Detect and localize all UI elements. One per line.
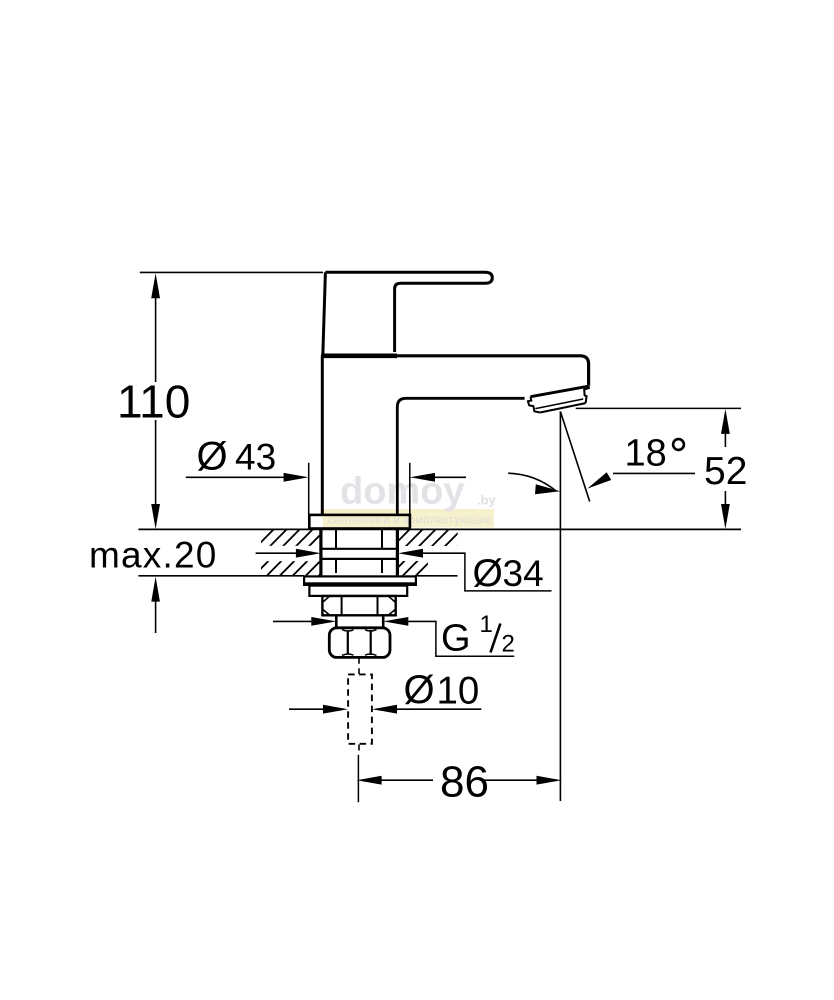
svg-text:43: 43 — [235, 436, 276, 477]
svg-text:Ø: Ø — [473, 552, 503, 595]
svg-text:52: 52 — [704, 450, 747, 493]
svg-text:86: 86 — [440, 757, 489, 806]
svg-text:10: 10 — [437, 670, 480, 713]
svg-text:110: 110 — [117, 376, 190, 428]
svg-text:2: 2 — [502, 631, 515, 658]
svg-text:G: G — [441, 617, 471, 659]
svg-text:max.20: max.20 — [89, 535, 218, 576]
svg-text:1: 1 — [480, 611, 493, 638]
svg-text:Ø: Ø — [404, 668, 435, 712]
svg-text:34: 34 — [503, 553, 544, 594]
svg-text:Ø: Ø — [197, 434, 228, 478]
svg-text:18: 18 — [625, 432, 667, 474]
svg-text:.by: .by — [477, 493, 497, 508]
